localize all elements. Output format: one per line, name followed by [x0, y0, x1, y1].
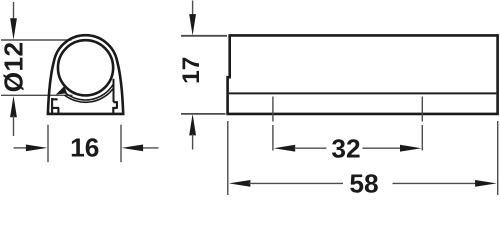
extension line Ø12 bottom tangent — [1, 94, 73, 96]
inner circle Ø12 bore — [58, 40, 113, 95]
extension line 17 top — [181, 35, 227, 37]
dimension line Ø12 bottom segment — [13, 116, 15, 137]
extension line 17 bottom — [181, 113, 226, 115]
arrowhead 16 right (points left) — [122, 145, 144, 152]
arrowhead 16 left (points right) — [26, 145, 48, 152]
seam line on side view — [229, 92, 496, 94]
svg-text:58: 58 — [349, 169, 378, 197]
svg-text:17: 17 — [178, 57, 205, 84]
svg-text:16: 16 — [70, 132, 99, 162]
extension line Ø12 top tangent — [1, 39, 72, 41]
dimension line 17 top segment — [192, 1, 194, 16]
dimension line 17 bottom segment — [192, 134, 194, 150]
left hook detail — [52, 98, 59, 113]
arrowhead 58 right (points right) — [475, 180, 497, 187]
arrowhead Ø12 top (points down) — [10, 18, 17, 40]
wedge left (tongue anchor) — [56, 86, 67, 95]
arrowhead 17 bottom (points up) — [189, 114, 196, 135]
outer profile of clip cross-section — [48, 35, 123, 114]
svg-text:Ø12: Ø12 — [0, 41, 28, 92]
dimension line 32 right segment — [363, 147, 402, 149]
saddle tongue upper arc — [62, 84, 113, 100]
dimension line 16 right outside segment — [142, 147, 159, 149]
arrowhead 32 left (points left) — [274, 145, 296, 152]
saddle tongue lower arc — [64, 87, 114, 102]
dimension line 32 left segment — [294, 147, 327, 149]
dimension line 58 right segment — [393, 182, 477, 184]
centerline hole left — [272, 97, 274, 151]
extension line 16 right — [120, 125, 122, 163]
arrowhead Ø12 bottom (points up) — [10, 96, 17, 118]
centerline hole right — [421, 97, 423, 151]
dimension line Ø12 top segment — [13, 2, 15, 20]
dimension line 58 left segment — [249, 182, 343, 184]
side view outline rectangle with step — [228, 35, 498, 114]
dimension line 16 left outside segment — [14, 147, 28, 149]
arrowhead 17 top (points down) — [189, 14, 196, 35]
extension line 58 left — [227, 121, 229, 195]
svg-text:32: 32 — [331, 133, 360, 163]
arrowhead 58 left (points left) — [229, 180, 251, 187]
extension line 58 right — [497, 121, 499, 195]
right hook detail — [113, 102, 117, 113]
slit line right of tongue — [113, 79, 115, 102]
arrowhead 32 right (points right) — [400, 145, 422, 152]
extension line 16 left — [47, 125, 49, 163]
